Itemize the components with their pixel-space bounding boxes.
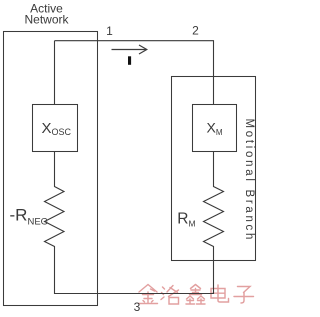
svg-text:1: 1 (106, 24, 113, 38)
svg-text:Network: Network (24, 13, 69, 27)
svg-text:2: 2 (192, 24, 199, 38)
svg-text:3: 3 (134, 300, 141, 314)
svg-text:Motional Branch: Motional Branch (243, 119, 255, 243)
